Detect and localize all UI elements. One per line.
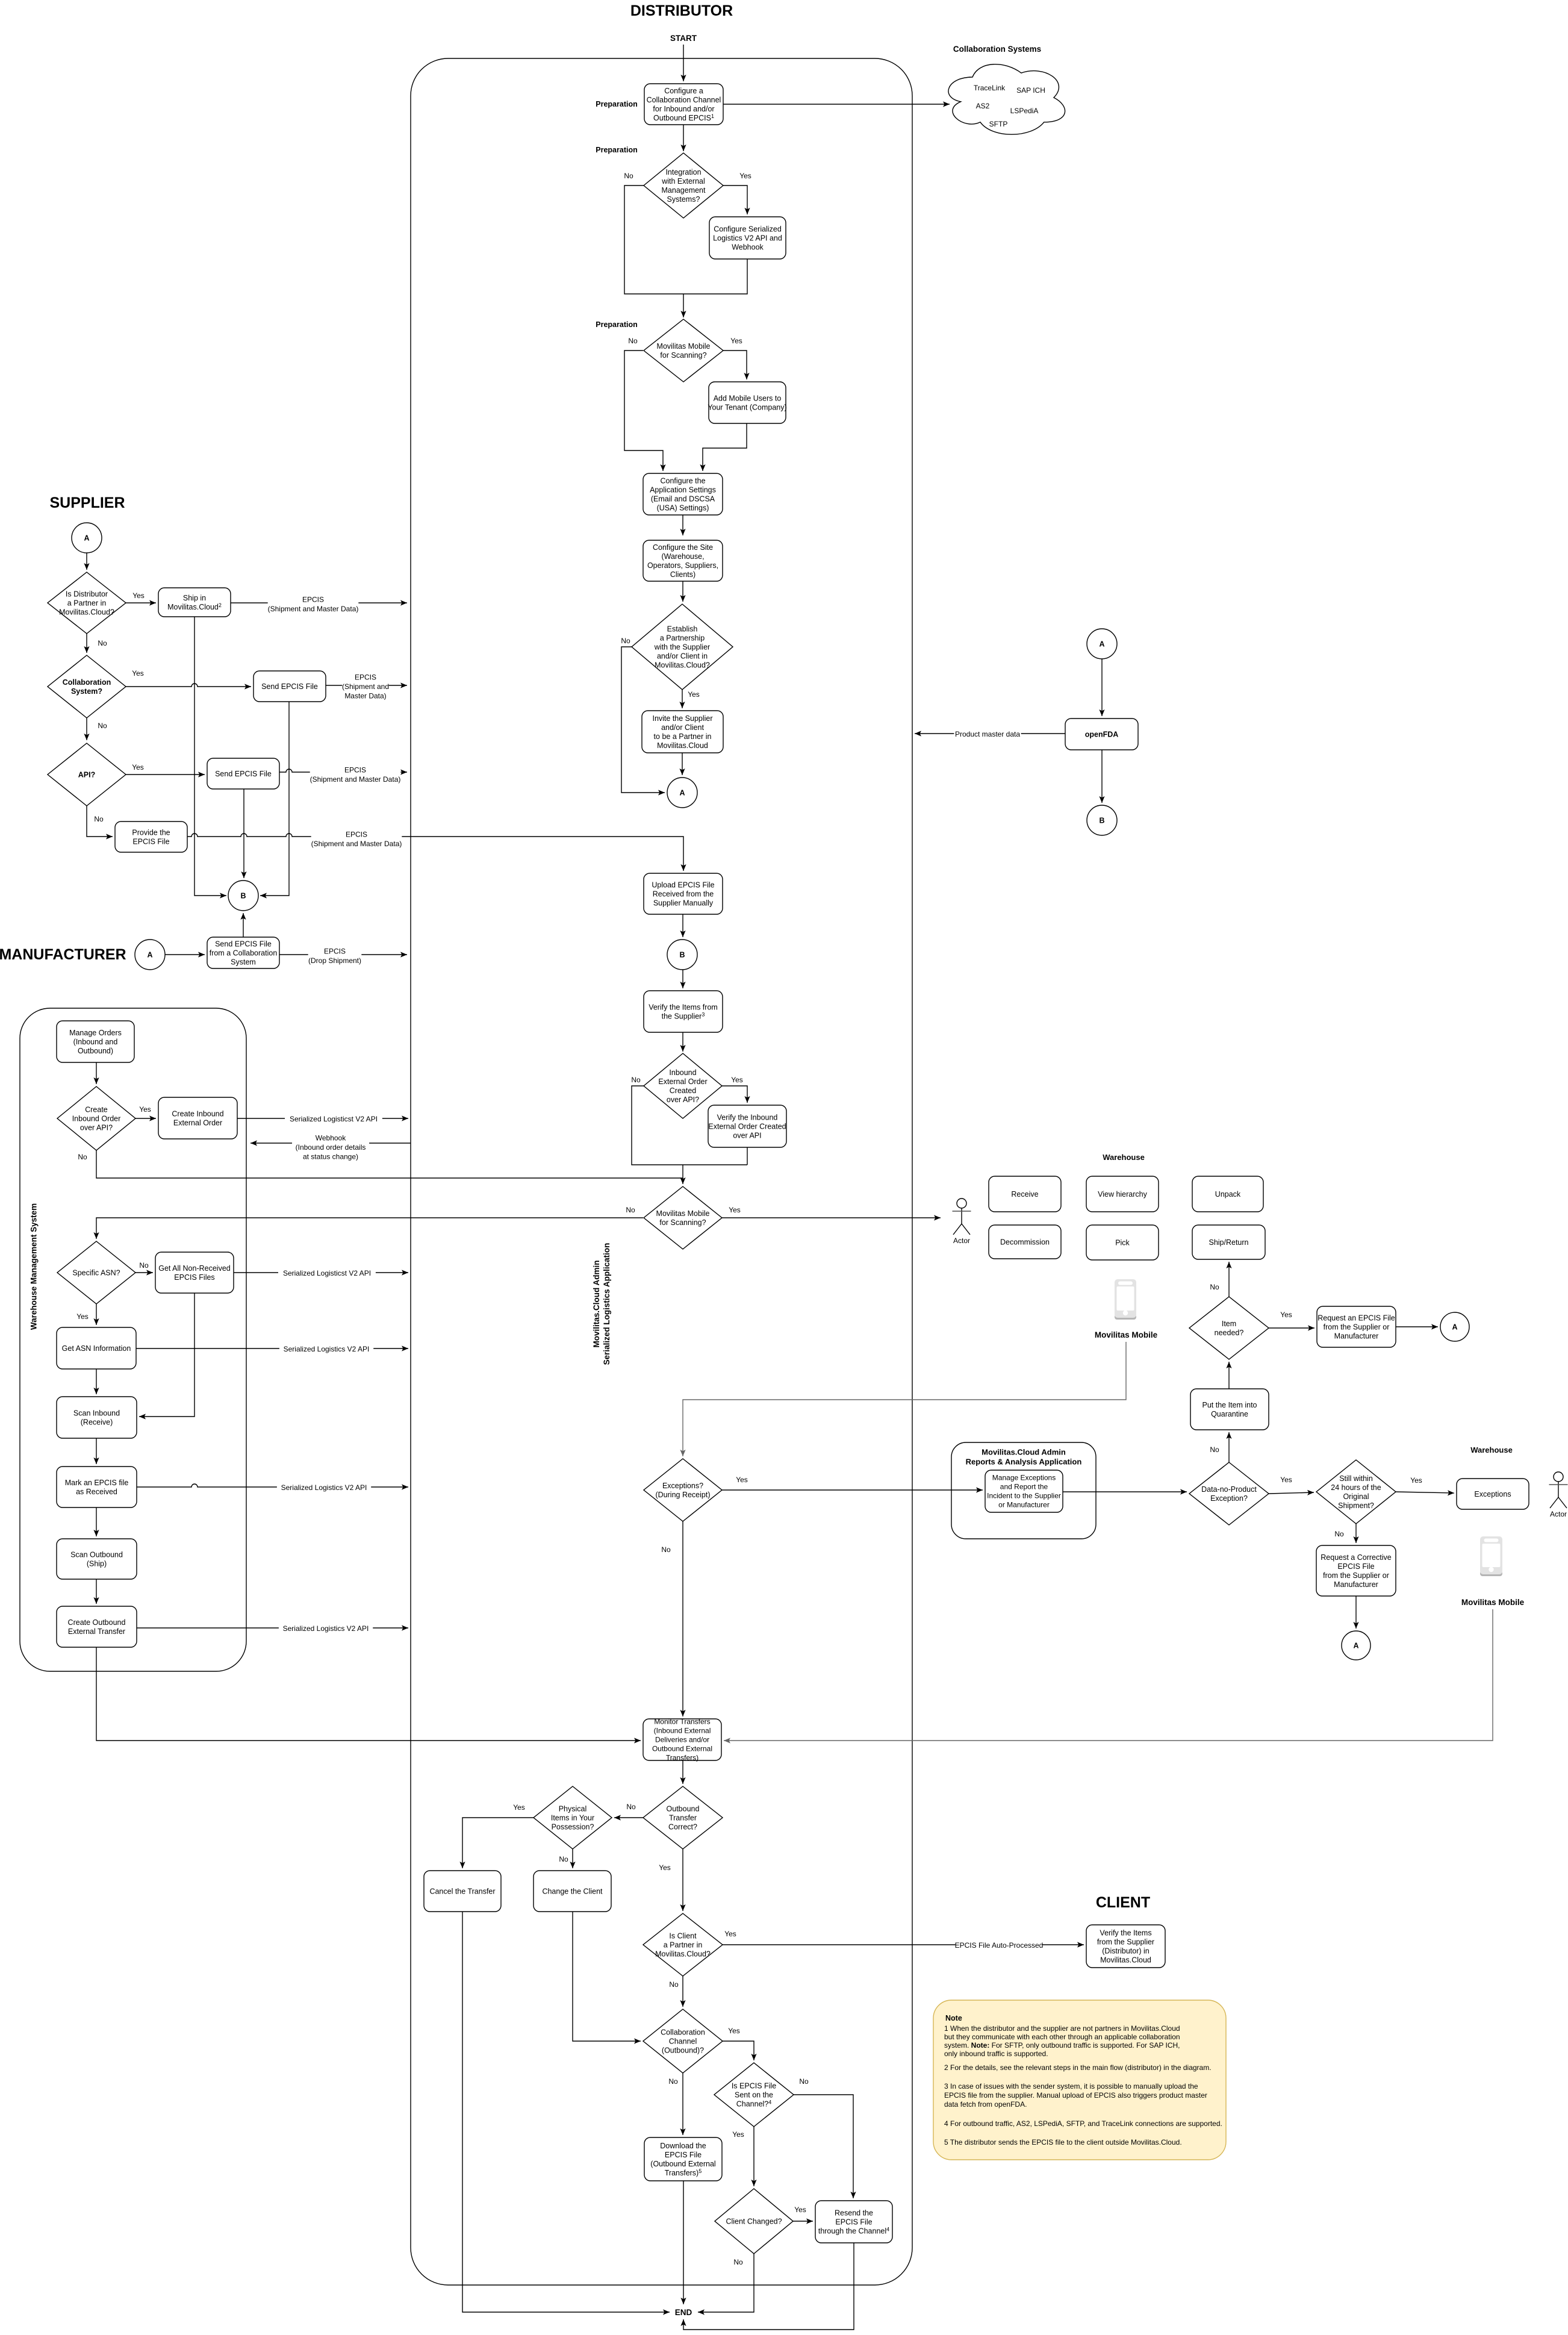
process Add Mobile Users to Your Tenant (Company): [708, 382, 786, 423]
svg-text:Movilitas.Cloud Admin: Movilitas.Cloud Admin: [982, 1448, 1066, 1457]
svg-text:over API: over API: [733, 1131, 761, 1139]
wire Configure Channel to cloud: [723, 101, 950, 107]
connector A right: [1440, 1312, 1469, 1341]
connector A manufacturer: [135, 940, 165, 970]
svg-text:from the Supplier or: from the Supplier or: [1324, 1323, 1390, 1331]
svg-text:Monitor Transfers: Monitor Transfers: [654, 1718, 710, 1726]
wire SpecificASN Yes to Get ASN Info: [93, 1304, 99, 1325]
svg-text:Outbound EPCIS1: Outbound EPCIS1: [653, 113, 714, 122]
svg-text:Yes: Yes: [739, 172, 751, 180]
svg-text:SFTP: SFTP: [989, 120, 1008, 128]
svg-text:B: B: [240, 892, 246, 900]
svg-text:Transfer: Transfer: [669, 1813, 697, 1822]
svg-text:Movilitas.Cloud?: Movilitas.Cloud?: [655, 1950, 711, 1958]
wire Send EPCIS 2 down to circle B: [241, 789, 246, 878]
svg-text:Serialized Logisticst V2 API: Serialized Logisticst V2 API: [290, 1115, 378, 1123]
wire Upload to circle B dist: [680, 914, 685, 937]
svg-text:Items in Your: Items in Your: [551, 1813, 594, 1822]
button View hierarchy: [1086, 1176, 1159, 1212]
svg-text:Master Data): Master Data): [344, 692, 386, 700]
svg-text:No: No: [1334, 1530, 1344, 1538]
wire supplier A to Is Distributor decision: [84, 553, 89, 570]
wire Request Corrective to circle A: [1353, 1596, 1358, 1629]
wire circle B dist to Verify Items: [680, 970, 685, 988]
wire Integration No jog: [624, 185, 683, 294]
process Provide the EPCIS File: [115, 821, 187, 852]
svg-text:Movilitas Mobile: Movilitas Mobile: [657, 342, 711, 351]
wire OutboundCorrect No to Physical Items: [614, 1815, 643, 1820]
svg-text:(Email and DSCSA: (Email and DSCSA: [651, 494, 715, 503]
svg-text:No: No: [624, 172, 633, 180]
svg-text:(Distributor) in: (Distributor) in: [1102, 1947, 1150, 1955]
wire CollabSystem Yes to Send EPCIS 1: [126, 684, 251, 690]
wire InboundOrder No jog: [632, 1086, 747, 1165]
svg-text:Client Changed?: Client Changed?: [726, 2217, 782, 2225]
svg-text:the Supplier3: the Supplier3: [662, 1011, 705, 1020]
decision Item needed?: [1189, 1297, 1269, 1359]
process Put the Item into Quarantine: [1190, 1389, 1269, 1430]
svg-text:SUPPLIER: SUPPLIER: [49, 494, 125, 511]
svg-text:A: A: [1353, 1642, 1358, 1650]
wire PhysicalItems No to Change Client: [570, 1849, 575, 1868]
svg-text:No: No: [621, 637, 630, 645]
svg-text:5 The distributor sends the EP: 5 The distributor sends the EPCIS file t…: [944, 2138, 1182, 2146]
wire Exceptions No to Monitor Transfers: [680, 1520, 685, 1716]
label Serialized Logistics V2 API 5: [279, 1624, 373, 1633]
connector A distributor: [667, 778, 697, 808]
process Cancel the Transfer: [424, 1871, 501, 1912]
wire IsEPCISSent No to Resend: [793, 2095, 856, 2198]
button Exceptions: [1457, 1479, 1529, 1509]
svg-text:Actor: Actor: [1550, 1510, 1567, 1518]
label EPCIS Shipment Master Data 1: [268, 595, 359, 614]
svg-text:Manage Orders: Manage Orders: [69, 1029, 122, 1037]
svg-text:(Inbound order details: (Inbound order details: [296, 1143, 366, 1152]
wire IsDistributor No to Collaboration System: [84, 634, 89, 653]
decision Establish a Partnership: [632, 604, 733, 690]
svg-text:and Report the: and Report the: [1000, 1483, 1048, 1491]
svg-text:(Receive): (Receive): [81, 1418, 113, 1426]
svg-text:over API?: over API?: [80, 1123, 113, 1132]
decision Is Client a Partner in Movilitas.Cloud?: [643, 1913, 723, 1976]
connector B distributor: [667, 940, 697, 970]
connector A supplier: [72, 523, 102, 553]
wire Send EPCIS 2 to lane: [279, 769, 407, 775]
wire InboundOrder Yes to Verify Inbound Order: [721, 1086, 750, 1103]
svg-text:Request a Corrective: Request a Corrective: [1321, 1553, 1391, 1562]
svg-text:Resend the: Resend the: [835, 2209, 873, 2217]
connector B supplier: [228, 881, 258, 911]
decision Is EPCIS File Sent on the Channel?: [714, 2063, 794, 2127]
svg-text:Movilitas.Cloud Admin: Movilitas.Cloud Admin: [592, 1261, 601, 1348]
svg-text:with External: with External: [661, 177, 705, 185]
actor warehouse 1: [953, 1199, 971, 1245]
decision Create Inbound Order over API?: [57, 1086, 135, 1150]
wire SpecificASN No to Get All NonReceived: [135, 1270, 153, 1275]
wire App Settings to Site: [680, 515, 685, 535]
svg-text:Verify the Inbound: Verify the Inbound: [717, 1113, 778, 1121]
svg-text:from the Supplier or: from the Supplier or: [1323, 1571, 1389, 1580]
svg-text:No: No: [631, 1076, 641, 1084]
svg-text:DISTRIBUTOR: DISTRIBUTOR: [630, 2, 733, 19]
svg-text:No: No: [98, 639, 107, 647]
svg-text:Serialized Logisticst V2 API: Serialized Logisticst V2 API: [283, 1269, 371, 1277]
svg-text:over API?: over API?: [667, 1096, 699, 1104]
container Movilitas.Cloud Admin Reports & Analysis Application: [951, 1442, 1096, 1539]
icon Movilitas Mobile phone 2: [1480, 1536, 1502, 1576]
decision Collaboration Channel (Outbound)?: [643, 2009, 723, 2073]
wire openFDA A to openFDA: [1099, 659, 1104, 716]
actor warehouse 2: [1549, 1472, 1568, 1518]
svg-text:Preparation: Preparation: [596, 320, 637, 329]
svg-text:Is Client: Is Client: [669, 1931, 697, 1940]
svg-text:(Shipment and Master Data): (Shipment and Master Data): [310, 775, 401, 784]
wire CreateInbound No jog: [96, 1150, 683, 1178]
wire Integration Yes to Configure Serialized: [723, 185, 750, 214]
process Scan Outbound (Ship): [57, 1539, 137, 1579]
decision Integration with External Management Systems?: [644, 153, 723, 218]
wire MobilePrep No jog: [624, 351, 666, 471]
process Configure the Site: [643, 540, 723, 581]
svg-text:Unpack: Unpack: [1215, 1190, 1241, 1199]
svg-text:Movilitas Mobile: Movilitas Mobile: [1461, 1598, 1525, 1607]
svg-text:No: No: [626, 1803, 636, 1811]
svg-text:Channel: Channel: [669, 2037, 697, 2045]
svg-text:Configure a: Configure a: [664, 87, 703, 95]
svg-text:CLIENT: CLIENT: [1096, 1894, 1150, 1911]
svg-text:No: No: [1210, 1445, 1219, 1454]
svg-text:Collaboration Channel: Collaboration Channel: [647, 96, 721, 104]
process Change the Client: [534, 1871, 611, 1912]
svg-text:No: No: [628, 337, 638, 345]
svg-text:Original: Original: [1343, 1492, 1369, 1501]
svg-text:Movilitas.Cloud: Movilitas.Cloud: [1100, 1956, 1151, 1964]
svg-text:(Shipment and: (Shipment and: [342, 682, 389, 691]
svg-text:Movilitas Mobile: Movilitas Mobile: [656, 1209, 710, 1218]
wire Change Client to Collaboration Channel decision: [573, 1912, 641, 2044]
svg-text:Yes: Yes: [732, 2130, 744, 2139]
svg-text:Manufacturer: Manufacturer: [1334, 1332, 1379, 1340]
svg-text:No: No: [626, 1206, 635, 1214]
svg-text:Ship in: Ship in: [183, 594, 206, 602]
process Configure Serialized Logistics V2 API and Webhook: [709, 217, 786, 259]
decision Client Changed?: [715, 2189, 793, 2254]
svg-text:System: System: [231, 958, 256, 966]
svg-text:Yes: Yes: [139, 1105, 151, 1114]
svg-text:(Warehouse,: (Warehouse,: [661, 552, 704, 561]
svg-text:No: No: [559, 1855, 568, 1863]
svg-text:Webhook: Webhook: [316, 1134, 346, 1143]
svg-text:Verify the Items: Verify the Items: [1100, 1928, 1151, 1937]
svg-text:24 hours of the: 24 hours of the: [1331, 1483, 1381, 1492]
svg-text:(Ship): (Ship): [87, 1559, 107, 1568]
svg-text:Yes: Yes: [688, 690, 700, 699]
button Decommission: [989, 1225, 1061, 1259]
process Send EPCIS File 1: [254, 671, 326, 702]
svg-text:Put the Item into: Put the Item into: [1202, 1401, 1257, 1409]
svg-text:EPCIS Files: EPCIS Files: [174, 1273, 214, 1282]
process Get ASN Information: [57, 1327, 136, 1369]
wire Create Outbound to lane: [137, 1625, 408, 1630]
svg-text:START: START: [670, 34, 697, 43]
wire Cancel Transfer to END: [462, 1912, 670, 2315]
label Webhook: [292, 1133, 369, 1162]
svg-text:4 For outbound traffic, AS2, L: 4 For outbound traffic, AS2, LSPediA, SF…: [944, 2119, 1222, 2128]
wire Scan Inbound to Mark EPCIS: [93, 1438, 99, 1464]
wire Send EPCIS 1 down to circle B: [260, 702, 289, 899]
svg-text:Correct?: Correct?: [668, 1822, 697, 1831]
decision Physical Items in Your Possession?: [534, 1786, 612, 1849]
svg-text:(Shipment and Master Data): (Shipment and Master Data): [268, 605, 359, 613]
wire Verify Inbound Order down: [747, 1147, 748, 1165]
svg-text:No: No: [733, 2258, 743, 2266]
svg-text:for Scanning?: for Scanning?: [659, 1218, 706, 1227]
svg-text:Yes: Yes: [659, 1863, 671, 1872]
svg-text:Yes: Yes: [1280, 1311, 1292, 1319]
process Configure the Application Settings: [643, 473, 723, 515]
svg-text:No: No: [98, 722, 107, 730]
connector A right bottom: [1342, 1631, 1370, 1660]
decision Still within 24 hours of the Original Shipment?: [1316, 1460, 1396, 1524]
svg-text:Yes: Yes: [731, 1076, 743, 1084]
svg-text:(Drop Shipment): (Drop Shipment): [308, 956, 361, 965]
svg-text:A: A: [84, 534, 89, 543]
svg-text:EPCIS: EPCIS: [344, 766, 366, 775]
svg-text:A: A: [147, 951, 152, 959]
svg-text:Ship/Return: Ship/Return: [1209, 1238, 1248, 1247]
svg-text:EPCIS file from the supplier.: EPCIS file from the supplier. Manual upl…: [944, 2091, 1207, 2100]
wire MobileScan Yes to Actor: [721, 1215, 941, 1220]
label EPCIS Shipment Master Data 4: [311, 830, 402, 849]
wire IsClient Yes to client Verify box: [722, 1942, 1084, 1947]
svg-text:Pick: Pick: [1115, 1238, 1130, 1247]
svg-text:Request an EPCIS File: Request an EPCIS File: [1318, 1314, 1395, 1322]
svg-text:System?: System?: [71, 687, 102, 696]
svg-text:and/or Client: and/or Client: [661, 723, 704, 732]
svg-text:A: A: [1099, 640, 1104, 649]
connector A openFDA: [1087, 629, 1117, 659]
svg-text:Serialized Logistics V2 API: Serialized Logistics V2 API: [281, 1483, 367, 1492]
svg-text:Outbound): Outbound): [78, 1047, 113, 1055]
wire Request EPCIS File to circle A right: [1396, 1324, 1438, 1329]
svg-text:EPCIS File: EPCIS File: [835, 2218, 872, 2226]
svg-text:needed?: needed?: [1215, 1329, 1244, 1337]
wire ClientChanged No to END: [698, 2254, 754, 2315]
wire Site to Establish Partnership: [680, 581, 685, 602]
svg-text:a Partner in: a Partner in: [664, 1941, 703, 1949]
decision Inbound External Order Created over API?: [644, 1053, 722, 1118]
process Ship in Movilitas.Cloud: [158, 588, 231, 617]
svg-text:with the Supplier: with the Supplier: [654, 643, 710, 651]
decision Exceptions? (During Receipt): [644, 1459, 722, 1521]
note box: [933, 2000, 1226, 2160]
svg-text:EPCIS File: EPCIS File: [665, 2151, 702, 2159]
decision Is Distributor a Partner in Movilitas.Cloud?: [48, 572, 126, 634]
svg-text:External Order: External Order: [658, 1077, 707, 1086]
svg-text:Inbound Order: Inbound Order: [72, 1114, 121, 1123]
svg-text:(Shipment and Master Data): (Shipment and Master Data): [311, 840, 402, 848]
process Monitor Transfers: [643, 1718, 721, 1762]
wire Monitor Transfers to Outbound Correct: [680, 1760, 685, 1784]
svg-text:Actor: Actor: [953, 1236, 970, 1245]
svg-text:Yes: Yes: [1280, 1476, 1292, 1484]
svg-text:as Received: as Received: [76, 1488, 117, 1496]
svg-text:SAP ICH: SAP ICH: [1016, 86, 1045, 95]
connector B openFDA: [1087, 805, 1117, 835]
wire CollabChannel Yes to Is EPCIS Sent: [722, 2041, 757, 2060]
svg-text:Transfers)5: Transfers)5: [665, 2168, 702, 2177]
wire manufacturer A to Send EPCIS collab: [165, 952, 205, 957]
svg-text:Add Mobile Users to: Add Mobile Users to: [714, 394, 782, 402]
svg-text:Is Distributor: Is Distributor: [66, 590, 108, 598]
svg-text:Yes: Yes: [76, 1312, 89, 1321]
wire Establish Yes to Invite: [679, 690, 685, 708]
svg-text:EPCIS: EPCIS: [346, 831, 367, 839]
process Request a Corrective EPCIS File: [1316, 1545, 1396, 1596]
lane container Warehouse Management System: [20, 1008, 246, 1671]
wire Webhook back: [250, 1140, 411, 1146]
svg-text:Yes: Yes: [794, 2206, 806, 2214]
svg-text:MANUFACTURER: MANUFACTURER: [0, 946, 126, 963]
wire START to Configure Channel: [680, 45, 686, 81]
wire PhysicalItems Yes to Cancel Transfer: [459, 1818, 534, 1868]
wire Send EPCIS collab to lane (Drop Shipment): [279, 952, 407, 957]
wire into Movilitas Mobile prep decision: [680, 294, 686, 317]
wire MobileScan No to Specific ASN: [93, 1218, 643, 1239]
svg-text:(During Receipt): (During Receipt): [655, 1491, 710, 1499]
wire ClientChanged Yes to Resend: [793, 2218, 813, 2224]
svg-text:Sent on the: Sent on the: [735, 2090, 773, 2099]
svg-text:Movilitas.Cloud?: Movilitas.Cloud?: [655, 661, 710, 669]
label Product master data: [954, 729, 1021, 739]
svg-text:Possession?: Possession?: [552, 1822, 594, 1831]
svg-text:A: A: [1452, 1323, 1457, 1332]
svg-text:B: B: [1099, 817, 1104, 825]
wire Send EPCIS 1 to lane: [326, 682, 407, 688]
process Send EPCIS File 2: [207, 758, 279, 789]
svg-text:Exceptions: Exceptions: [1474, 1490, 1511, 1498]
wire Get All NonReceived to lane: [234, 1270, 408, 1275]
svg-text:External Order: External Order: [173, 1118, 222, 1127]
svg-text:Create: Create: [85, 1105, 108, 1114]
label Movilitas.Cloud Admin Serialized Logistics Application (rotated): [592, 1243, 611, 1365]
svg-text:Change the Client: Change the Client: [542, 1887, 603, 1895]
svg-text:to be a Partner in: to be a Partner in: [654, 732, 712, 741]
svg-text:3 In case of issues with the s: 3 In case of issues with the sender syst…: [944, 2082, 1198, 2090]
svg-text:from the Supplier: from the Supplier: [1097, 1938, 1154, 1946]
process Configure a Collaboration Channel: [644, 84, 723, 125]
svg-text:but they communicate with each: but they communicate with each other thr…: [944, 2033, 1180, 2041]
button Ship/Return: [1192, 1225, 1265, 1259]
svg-text:Exceptions?: Exceptions?: [662, 1482, 703, 1490]
svg-text:Collaboration: Collaboration: [661, 2028, 705, 2036]
svg-text:openFDA: openFDA: [1085, 730, 1119, 738]
svg-text:Warehouse: Warehouse: [1470, 1445, 1513, 1454]
svg-text:Send EPCIS File: Send EPCIS File: [215, 940, 272, 948]
label Serialized Logisticst V2 API 1: [285, 1114, 382, 1124]
wire Ship box down to circle B: [194, 617, 226, 899]
wire Configure Channel to Integration decision: [680, 125, 686, 151]
svg-text:No: No: [668, 2077, 678, 2086]
svg-text:Specific ASN?: Specific ASN?: [72, 1268, 120, 1277]
process Create Inbound External Order: [158, 1097, 237, 1139]
svg-text:1 When the distributor and the: 1 When the distributor and the supplier …: [944, 2024, 1180, 2033]
svg-text:Note: Note: [945, 2014, 962, 2022]
svg-text:Configure the Site: Configure the Site: [653, 543, 713, 552]
svg-text:through the Channel4: through the Channel4: [818, 2226, 889, 2235]
svg-text:Collaboration: Collaboration: [63, 678, 111, 687]
process Create Outbound External Transfer: [57, 1606, 137, 1647]
wire OutboundCorrect Yes to Is Client: [680, 1849, 685, 1911]
wire IsClient No to Collaboration Channel: [680, 1975, 685, 2007]
svg-text:(Outbound External: (Outbound External: [650, 2160, 715, 2168]
svg-text:Serialized Logistics V2 API: Serialized Logistics V2 API: [283, 1624, 369, 1633]
svg-text:No: No: [78, 1153, 87, 1161]
svg-text:Receive: Receive: [1011, 1190, 1038, 1199]
svg-text:Preparation: Preparation: [596, 146, 637, 154]
svg-text:Application Settings: Application Settings: [650, 485, 716, 494]
svg-text:Cancel the Transfer: Cancel the Transfer: [429, 1887, 495, 1895]
wire Create Outbound to Monitor Transfers: [96, 1647, 641, 1744]
process Upload EPCIS File Received from the Supplier Manually: [644, 873, 723, 914]
svg-text:Exception?: Exception?: [1210, 1494, 1248, 1503]
svg-text:(USA) Settings): (USA) Settings): [657, 503, 709, 512]
process Invite the Supplier and/or Client: [642, 711, 723, 753]
svg-text:Operators, Suppliers,: Operators, Suppliers,: [647, 561, 718, 570]
process Manage Exceptions and Report the Incident: [985, 1470, 1063, 1512]
label Warehouse Management System (rotated): [30, 1203, 39, 1330]
svg-text:A: A: [679, 789, 685, 797]
svg-text:Serialized Logistics Applicati: Serialized Logistics Application: [602, 1243, 611, 1365]
wire Ship box to lane EPCIS: [231, 600, 407, 605]
svg-text:Data-no-Product: Data-no-Product: [1201, 1485, 1257, 1494]
svg-text:No: No: [799, 2077, 809, 2086]
svg-text:Integration: Integration: [665, 168, 701, 176]
wire Invite to circle A: [679, 753, 685, 775]
wire Manage Orders to Create Inbound decision: [93, 1062, 99, 1084]
svg-text:Product master data: Product master data: [955, 730, 1020, 738]
svg-text:Manufacturer: Manufacturer: [1334, 1580, 1378, 1589]
button Receive: [989, 1176, 1061, 1212]
svg-text:Get ASN Information: Get ASN Information: [62, 1344, 131, 1353]
svg-text:Movilitas.Cloud?: Movilitas.Cloud?: [59, 608, 114, 616]
wire CollabChannel No to Download: [680, 2072, 685, 2135]
wire Get ASN Info to Scan Inbound: [93, 1369, 99, 1394]
svg-text:Reports & Analysis Application: Reports & Analysis Application: [966, 1457, 1082, 1467]
svg-text:Upload EPCIS File: Upload EPCIS File: [652, 881, 714, 889]
svg-text:Incident to the Supplier: Incident to the Supplier: [987, 1492, 1061, 1500]
svg-text:External Order Created: External Order Created: [708, 1122, 786, 1130]
svg-text:Transfers): Transfers): [666, 1754, 698, 1762]
wire Create Inbound box to lane (Serialized Logisticst V2 API): [237, 1115, 408, 1121]
label EPCIS Shipment Master Data 2: [342, 673, 389, 701]
svg-text:Establish: Establish: [667, 625, 698, 633]
decision Outbound Transfer Correct?: [643, 1786, 723, 1849]
svg-text:Yes: Yes: [730, 337, 742, 345]
label EPCIS Drop Shipment: [308, 947, 362, 965]
process Scan Inbound (Receive): [57, 1397, 137, 1438]
process Request an EPCIS File from the Supplier or Manufacturer: [1317, 1306, 1396, 1347]
svg-text:No: No: [1210, 1283, 1219, 1291]
wire Send EPCIS collab up to circle B: [240, 913, 246, 937]
svg-text:Movilitas Mobile: Movilitas Mobile: [1095, 1330, 1158, 1339]
decision Collaboration System?: [48, 655, 126, 718]
process Verify the Inbound External Order Created over API: [708, 1105, 786, 1147]
svg-text:Supplier Manually: Supplier Manually: [653, 899, 714, 907]
process Resend the EPCIS File through the Channel: [815, 2201, 892, 2243]
svg-text:Outbound External: Outbound External: [652, 1745, 712, 1753]
svg-text:a Partner in: a Partner in: [67, 599, 107, 607]
